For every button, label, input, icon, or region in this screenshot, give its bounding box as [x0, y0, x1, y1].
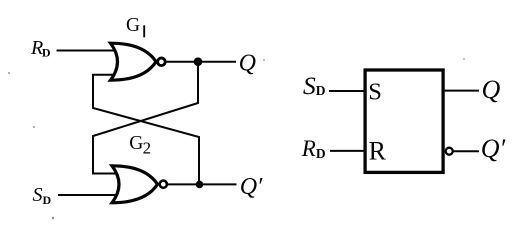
svg-text:Q: Q [482, 75, 501, 104]
svg-text:Q: Q [239, 51, 256, 77]
svg-text:G: G [126, 15, 140, 36]
svg-text:Q′: Q′ [481, 134, 506, 163]
svg-text:R: R [369, 136, 387, 165]
svg-text:S: S [368, 78, 382, 105]
svg-text:Q′: Q′ [240, 174, 263, 200]
